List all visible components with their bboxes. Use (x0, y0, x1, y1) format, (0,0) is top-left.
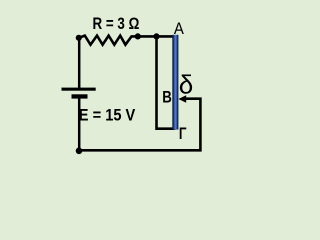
svg-text:R = 3 Ω: R = 3 Ω (93, 15, 140, 33)
svg-text:B: B (162, 89, 172, 107)
svg-text:Γ: Γ (179, 125, 187, 143)
svg-text:A: A (174, 20, 184, 38)
svg-text:E = 15 V: E = 15 V (79, 106, 136, 125)
svg-text:δ: δ (179, 70, 193, 100)
